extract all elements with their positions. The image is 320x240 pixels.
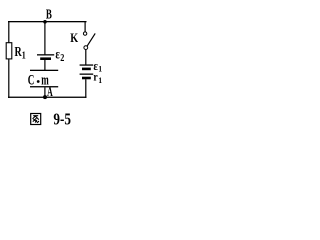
svg-text:r: r <box>93 72 97 84</box>
svg-text:9-5: 9-5 <box>53 109 71 128</box>
node A junction dot <box>43 95 47 99</box>
caption figure character tu (boxed glyph) <box>31 114 41 125</box>
battery e1 cell1 positive plate (long thin) <box>80 64 94 65</box>
switch K lower terminal <box>84 46 88 50</box>
svg-text:A: A <box>47 84 53 99</box>
resistor R1 <box>6 43 12 59</box>
wire middle branch lower (capacitor down to node A) <box>44 87 45 97</box>
svg-text:2: 2 <box>60 53 64 64</box>
battery cell e2 positive plate (long thin) <box>37 54 54 55</box>
wire bottom (bottom-left corner to bottom-right corner) <box>8 97 87 98</box>
svg-text:B: B <box>46 7 52 22</box>
wire top (B rail from top-left corner to top-right corner) <box>8 21 87 22</box>
wire middle branch upper (node B down to cell e2) <box>44 21 45 55</box>
node B junction dot <box>43 20 47 24</box>
particle dot between plates <box>37 80 40 83</box>
capacitor C top plate <box>30 70 58 71</box>
wire right upper (top-right corner down to switch K) <box>85 21 86 32</box>
wire right mid (switch K down to battery e1) <box>85 50 86 65</box>
wire left upper (top-left corner down to R1) <box>8 21 9 43</box>
svg-text:1: 1 <box>98 75 102 85</box>
switch K blade (open) <box>87 33 95 46</box>
svg-text:K: K <box>70 30 79 45</box>
svg-text:1: 1 <box>98 63 102 73</box>
battery cell e2 negative plate (short thick) <box>40 57 51 60</box>
wire right lower (battery e1 down to bottom-right corner) <box>85 79 86 98</box>
wire middle branch mid (cell e2 down to capacitor C top plate) <box>44 60 45 70</box>
battery e1 cell2 negative plate (short thick) <box>82 77 91 80</box>
switch K upper terminal <box>83 32 86 35</box>
capacitor C bottom plate <box>30 86 58 87</box>
battery e1 cell1 negative plate (short thick) <box>82 68 91 71</box>
battery e1 cell2 positive plate (long thin) <box>80 74 94 75</box>
wire left lower (R1 down to bottom-left corner) <box>8 59 9 98</box>
svg-text:1: 1 <box>22 50 26 61</box>
